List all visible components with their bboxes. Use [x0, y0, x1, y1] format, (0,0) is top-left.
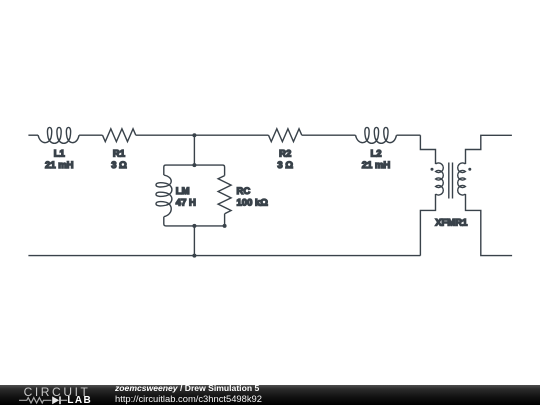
transformer XFMR1 primary winding — [436, 163, 444, 195]
resistor R1 — [103, 129, 136, 142]
footer bar — [0, 385, 540, 405]
svg-text:21 mH: 21 mH — [45, 160, 74, 171]
inductor LM — [156, 175, 172, 217]
XFMR1 primary phase dot — [431, 168, 434, 171]
wire — [302, 134, 356, 136]
svg-text:LM: LM — [176, 186, 190, 197]
svg-text:47 H: 47 H — [176, 197, 196, 208]
wire to XFMR1 primary — [420, 135, 435, 164]
node junction box top — [192, 163, 196, 167]
transformer XFMR1 secondary winding — [458, 163, 466, 195]
wire — [28, 134, 38, 136]
resistor R2 — [269, 129, 302, 142]
wire box bottom rail — [164, 214, 225, 226]
XFMR1 core line 2 — [452, 163, 454, 199]
inductor L1 — [38, 127, 79, 143]
wire box to bottom rail — [193, 226, 195, 256]
wire node branch — [193, 135, 195, 165]
wire — [79, 134, 102, 136]
wire XFMR1 primary to bottom rail — [420, 194, 435, 256]
attribution line 1 — [115, 383, 259, 393]
svg-text:3 Ω: 3 Ω — [111, 160, 127, 171]
node junction box bottom right — [223, 224, 227, 228]
svg-text:L1: L1 — [54, 149, 66, 160]
wire XFMR1 secondary bottom out — [466, 194, 513, 256]
svg-text:RC: RC — [237, 186, 251, 197]
wire — [397, 134, 421, 136]
svg-text:XFMR1: XFMR1 — [435, 217, 468, 228]
inductor L2 — [356, 127, 397, 143]
wire — [28, 255, 420, 257]
logo diode — [52, 396, 59, 404]
svg-text:L2: L2 — [370, 149, 381, 160]
CircuitLab logo — [19, 385, 97, 405]
XFMR1 core line 1 — [448, 163, 450, 199]
node junction box bottom — [192, 224, 196, 228]
svg-text:3 Ω: 3 Ω — [277, 160, 293, 171]
logo resistor squiggle — [19, 398, 51, 403]
XFMR1 secondary phase dot — [468, 168, 471, 171]
svg-text:100 kΩ: 100 kΩ — [237, 197, 269, 208]
node junction top — [192, 133, 196, 137]
attribution line 2 — [115, 393, 262, 404]
resistor RC — [218, 176, 231, 214]
wire — [136, 134, 269, 136]
svg-text:21 mH: 21 mH — [362, 160, 391, 171]
node junction bottom rail — [192, 254, 196, 258]
wire box top rail — [164, 165, 225, 176]
svg-text:R2: R2 — [279, 149, 291, 160]
svg-text:R1: R1 — [113, 149, 126, 160]
wire XFMR1 secondary top out — [466, 135, 512, 164]
